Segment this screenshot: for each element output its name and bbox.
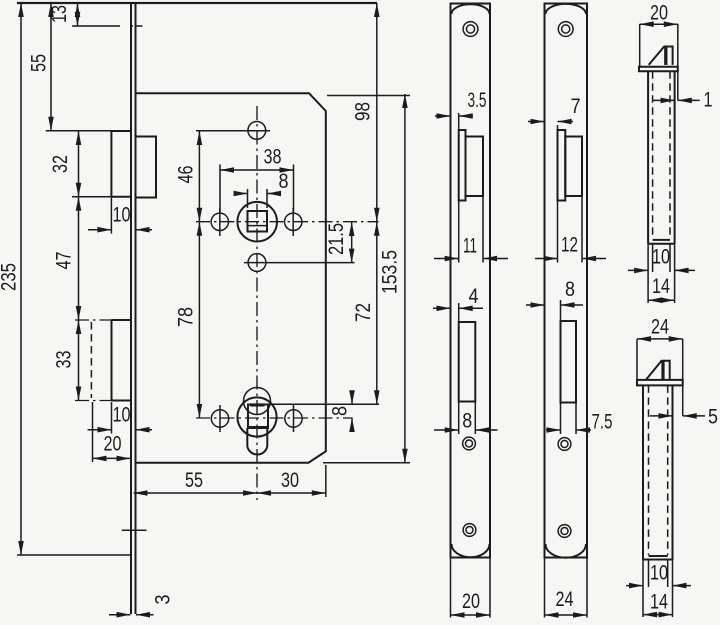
forend center tick mark bbox=[122, 529, 147, 531]
dim 10 upper extension bbox=[110, 198, 112, 234]
svg-text:72: 72 bbox=[352, 303, 375, 322]
LEFT VIEW: mortise lock body bbox=[17, 3, 379, 614]
svg-text:7.5: 7.5 bbox=[592, 411, 613, 434]
dim 10 extensions upper bbox=[653, 244, 670, 272]
svg-text:5: 5 bbox=[708, 406, 718, 429]
svg-text:33: 33 bbox=[52, 351, 75, 369]
crosshair ticks lower holes bbox=[220, 405, 294, 432]
dim 10 extensions lower bbox=[649, 560, 668, 588]
svg-text:32: 32 bbox=[49, 155, 72, 173]
dim 72 line bbox=[376, 222, 378, 405]
dim 46 line bbox=[198, 131, 200, 222]
bent lug triangle bbox=[649, 47, 673, 65]
svg-text:24: 24 bbox=[556, 588, 574, 611]
plate 2 latch bolt head bbox=[565, 137, 582, 197]
dim 3.5 arrows bbox=[435, 115, 451, 117]
bent lug thick edge lower bbox=[661, 361, 664, 379]
dim 13 line bbox=[77, 3, 79, 26]
svg-text:20: 20 bbox=[650, 2, 668, 25]
dim 8 lower extension bbox=[268, 403, 379, 405]
flange plate lower bbox=[637, 380, 683, 386]
svg-text:46: 46 bbox=[174, 166, 197, 184]
lower horizontal center line bbox=[196, 417, 353, 419]
dim 21.5 line bbox=[351, 222, 353, 263]
plate 1 latch bolt head bbox=[466, 137, 484, 197]
dim 20 line bbox=[640, 23, 678, 25]
dim 3.5 extension bbox=[458, 113, 460, 130]
lower square dark bar bbox=[250, 403, 265, 406]
dim 7.5 arrows bbox=[546, 429, 561, 431]
latch bolt head (protruding) bbox=[111, 131, 131, 197]
cylinder slot with round bottom bbox=[247, 428, 267, 455]
dim 8 plate2 extension bbox=[560, 300, 562, 321]
flange plate bbox=[639, 67, 678, 72]
svg-text:30: 30 bbox=[281, 469, 299, 492]
dim 32 line bbox=[78, 131, 80, 197]
dim 12 extensions bbox=[558, 196, 583, 263]
dead bolt bottom center line bbox=[75, 400, 112, 402]
svg-text:1: 1 bbox=[704, 89, 713, 112]
dim 11 arrows bbox=[434, 258, 459, 260]
crosshair hole below follower bbox=[244, 262, 355, 264]
top edge line of forend bbox=[17, 2, 377, 4]
svg-text:3.5: 3.5 bbox=[468, 89, 487, 112]
plate 2 top screw hole bbox=[558, 22, 573, 37]
follower hub circle bbox=[237, 202, 277, 242]
dim 153.5 extensions bbox=[323, 96, 410, 463]
RIGHT VIEW: side profile lower bbox=[626, 316, 718, 618]
dim 12 arrows bbox=[535, 258, 558, 260]
svg-text:21.5: 21.5 bbox=[325, 223, 348, 255]
plate 1 top rounded end arc bbox=[452, 4, 490, 14]
plate 2 lower screw hole bbox=[558, 525, 571, 538]
dead bolt thrown position (dashed) bbox=[90, 322, 92, 398]
plate 2 bottom rounded end arc bbox=[546, 544, 587, 558]
dim 33 line bbox=[78, 320, 80, 401]
svg-text:98: 98 bbox=[352, 102, 375, 121]
dim 10 upper arrows bbox=[88, 229, 111, 231]
dim 24 plate2 extensions bbox=[545, 558, 588, 618]
plate 2 outline bbox=[545, 4, 588, 558]
extension hole top row bbox=[196, 130, 270, 132]
MIDDLE VIEW: face plate 1 (20mm) bbox=[433, 4, 508, 618]
dim 55 line bbox=[50, 3, 52, 131]
latch bolt body inside case bbox=[136, 137, 157, 198]
plate 2 dead bolt cutout bbox=[561, 321, 577, 403]
plate 1 latch opening frame bbox=[459, 130, 466, 201]
svg-text:55: 55 bbox=[28, 54, 51, 72]
dim 10 arrows upper bbox=[628, 269, 648, 271]
dim 8 lower arrows bbox=[351, 391, 353, 404]
dim 30 bottom line bbox=[257, 492, 326, 494]
top screw hole bbox=[248, 121, 266, 139]
plate 1 top screw hole bbox=[463, 22, 478, 37]
plate 1 outline bbox=[451, 4, 491, 558]
dead bolt top center line bbox=[75, 319, 112, 321]
svg-text:20: 20 bbox=[104, 433, 122, 456]
MIDDLE VIEW: face plate 2 (24mm) bbox=[526, 4, 613, 618]
dim 235 line bbox=[20, 3, 22, 555]
dim 1 arrows bbox=[653, 99, 675, 101]
dim 38 extensions bbox=[220, 165, 294, 213]
plate 1 middle screw hole bbox=[463, 437, 476, 450]
dim 3 arrows bbox=[109, 614, 131, 616]
dim 78 line bbox=[198, 222, 200, 418]
dim 4 arrows bbox=[433, 307, 451, 309]
svg-text:20: 20 bbox=[462, 590, 480, 613]
plate 1 lower screw hole bbox=[463, 524, 476, 537]
forend faceplate (double vertical line) bbox=[131, 3, 136, 614]
svg-text:14: 14 bbox=[650, 591, 668, 614]
svg-text:8: 8 bbox=[462, 410, 472, 433]
dim 24 line bbox=[637, 338, 683, 340]
case channel sides bbox=[648, 71, 675, 243]
svg-text:8: 8 bbox=[329, 406, 352, 416]
extension case right bottom bbox=[325, 465, 327, 497]
svg-text:4: 4 bbox=[469, 285, 479, 308]
svg-text:8: 8 bbox=[279, 170, 289, 193]
dim 8 plate2 arrows bbox=[526, 304, 545, 306]
dim 20 extension bbox=[92, 402, 94, 462]
dim 7 arrows bbox=[528, 121, 545, 123]
svg-text:38: 38 bbox=[264, 146, 282, 169]
svg-text:14: 14 bbox=[652, 275, 670, 298]
lower left fixing hole bbox=[211, 410, 228, 427]
dim 8 plate1 arrows bbox=[434, 429, 459, 431]
dim 14 line upper bbox=[648, 299, 675, 301]
lower square spindle hole bbox=[248, 405, 268, 429]
svg-text:12: 12 bbox=[561, 234, 578, 257]
svg-text:10: 10 bbox=[113, 404, 131, 427]
dim 55 bottom line bbox=[134, 492, 258, 494]
plate 2 latch opening frame bbox=[558, 130, 566, 201]
lower square inner line bbox=[248, 426, 268, 428]
svg-text:10: 10 bbox=[113, 204, 131, 227]
dim 38 line bbox=[220, 169, 294, 171]
follower square spindle hole bbox=[248, 211, 268, 232]
dim 8 follower extensions bbox=[248, 189, 268, 208]
svg-text:10: 10 bbox=[650, 562, 668, 585]
svg-text:24: 24 bbox=[651, 316, 669, 339]
svg-text:47: 47 bbox=[52, 252, 75, 270]
dim 7.5 extensions bbox=[561, 403, 577, 435]
dim 20 plate1 extensions bbox=[451, 558, 491, 618]
dim 20 extensions bbox=[640, 24, 678, 100]
plate 2 top rounded end arc bbox=[546, 4, 587, 14]
svg-text:3: 3 bbox=[151, 595, 174, 605]
dim 7 extension bbox=[557, 125, 559, 130]
svg-text:153.5: 153.5 bbox=[379, 250, 402, 294]
case channel hidden lines lower bbox=[649, 385, 668, 555]
dim 14 extensions lower bbox=[643, 560, 673, 618]
DIMENSIONS OF LEFT VIEW bbox=[0, 3, 410, 615]
plate 1 dead bolt cutout bbox=[459, 322, 476, 402]
svg-text:235: 235 bbox=[0, 263, 21, 291]
dim 13 extension bbox=[72, 25, 143, 27]
bent lug triangle lower bbox=[646, 361, 669, 379]
svg-text:8: 8 bbox=[565, 278, 575, 301]
plate 2 middle screw hole bbox=[558, 438, 571, 451]
svg-text:7: 7 bbox=[571, 95, 581, 118]
dim 8 follower arrows bbox=[234, 193, 248, 195]
svg-text:55: 55 bbox=[185, 469, 203, 492]
dim 14 line lower bbox=[643, 614, 673, 616]
plate 1 bottom rounded end arc bbox=[452, 544, 490, 557]
svg-text:78: 78 bbox=[174, 307, 197, 327]
dim 153.5 line bbox=[404, 94, 406, 463]
dim 11 extensions bbox=[459, 196, 483, 263]
upper left fixing hole bbox=[211, 213, 228, 230]
svg-text:13: 13 bbox=[48, 5, 71, 23]
dead bolt head retracted (solid) bbox=[112, 320, 132, 401]
follower square inner line bbox=[248, 225, 268, 227]
svg-text:10: 10 bbox=[652, 246, 670, 269]
dim 4 extension bbox=[458, 303, 460, 322]
extension latch top bbox=[46, 130, 131, 132]
dim 8 plate1 extensions bbox=[459, 402, 476, 435]
case channel hidden lines bbox=[653, 71, 670, 239]
dim 98 line bbox=[376, 3, 378, 222]
dim 10 lower arrows bbox=[88, 429, 112, 431]
upper right fixing hole bbox=[285, 213, 302, 230]
extension latch bottom bbox=[72, 196, 111, 198]
dim 5 arrows bbox=[650, 415, 673, 417]
lower follower big circle bbox=[237, 397, 276, 436]
lower follower small circle bbox=[244, 388, 271, 415]
dim 20 plate1 line bbox=[451, 614, 491, 616]
dim 20 line bbox=[93, 457, 131, 459]
lock case outline with chamfered right corners bbox=[136, 93, 326, 463]
svg-text:11: 11 bbox=[463, 235, 477, 258]
dim 47 line bbox=[78, 197, 80, 320]
RIGHT VIEW: side profile upper bbox=[628, 2, 713, 304]
dim 10 lower extension bbox=[111, 402, 113, 434]
vertical center line bbox=[256, 106, 258, 500]
dim 10 arrows lower bbox=[626, 585, 643, 587]
upper horizontal center line bbox=[196, 221, 379, 223]
dim 24 plate2 line bbox=[545, 614, 588, 616]
dim 14 extensions upper bbox=[648, 244, 675, 303]
lower right fixing hole bbox=[285, 410, 302, 427]
crosshair ticks upper holes bbox=[220, 208, 293, 236]
hole below follower bbox=[248, 254, 266, 272]
bent lug thick edge bbox=[664, 47, 667, 65]
dim 235 bottom extension bbox=[17, 554, 131, 556]
dim 24 extensions bbox=[637, 339, 683, 416]
case channel sides lower bbox=[643, 385, 673, 559]
